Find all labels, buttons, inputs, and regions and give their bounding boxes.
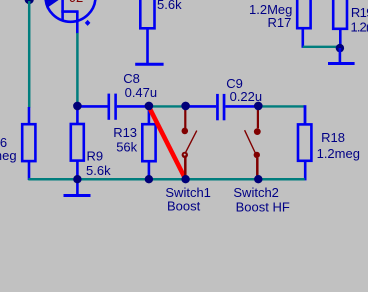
wire: bottom rail [28, 178, 305, 181]
wire: R17 to R19 node [303, 46, 338, 48]
svg-text:0.47u: 0.47u [125, 85, 158, 100]
svg-text:R19: R19 [351, 5, 368, 20]
svg-text:Boost HF: Boost HF [236, 199, 290, 214]
switch Switch1 (Boost) [165, 106, 211, 213]
resistor R9 [71, 106, 111, 180]
wire: C8 node to switch1 top [149, 105, 186, 107]
svg-text:Boost: Boost [167, 198, 201, 213]
svg-text:R9: R9 [87, 149, 104, 164]
svg-text:R17: R17 [268, 15, 292, 30]
node H (switch1 bottom) [181, 175, 189, 183]
ground (below 5.6k resistor) [135, 63, 163, 66]
switch Switch2 (Boost HF) [233, 106, 289, 214]
svg-text:5.6k: 5.6k [86, 163, 111, 178]
resistor (5.6k, top centre) [140, 0, 182, 64]
wire: switch2 top to R18 [258, 105, 304, 107]
svg-text:1.2meg: 1.2meg [351, 20, 368, 35]
node D (switch2 top / C9 right) [254, 102, 263, 111]
svg-text:56k: 56k [116, 139, 137, 154]
wire: left vertical [28, 1, 31, 108]
node A (R9/C8/transistor) [73, 102, 82, 111]
node F (R9 bottom / ground) [73, 175, 81, 183]
wire: red highlighted (node B to switch1 bottom) [149, 107, 185, 178]
svg-text:1.2meg: 1.2meg [317, 146, 360, 161]
resistor R18 [298, 105, 360, 180]
svg-text:Switch2: Switch2 [233, 185, 279, 200]
svg-text:J2: J2 [70, 0, 84, 5]
svg-text:5.6k: 5.6k [157, 0, 182, 12]
wire: transistor drain to node A [76, 33, 79, 105]
node B (C8/R13/red wire) [145, 102, 154, 111]
svg-text:R13: R13 [113, 125, 137, 140]
node I (switch2 bottom) [254, 175, 262, 183]
resistor R17 [249, 0, 311, 48]
resistor R16 (clipped labels) [0, 107, 35, 180]
svg-text:C8: C8 [123, 71, 140, 86]
resistor R19 (clipped labels) [333, 0, 368, 48]
node G (R13 bottom) [145, 175, 153, 183]
transistor J2 [45, 0, 96, 34]
node E (R17/R19 junction) [336, 44, 344, 52]
node: top-left terminal [25, 0, 34, 4]
capacitor C9 [186, 76, 263, 120]
ground (below node E) [328, 48, 355, 64]
resistor R13 [113, 106, 155, 180]
svg-text:1.2meg: 1.2meg [0, 148, 17, 163]
node C (switch1 top / C9 left) [181, 102, 190, 111]
ground (below R9 node) [64, 179, 91, 196]
svg-text:R18: R18 [321, 130, 345, 145]
capacitor C8 [77, 71, 157, 120]
